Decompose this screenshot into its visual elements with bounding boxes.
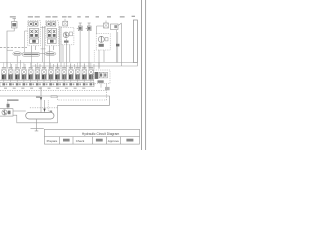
manifold valve unit MV12 xyxy=(75,63,80,83)
tank inlet pipe 2 xyxy=(44,100,46,113)
V1 solenoid a xyxy=(29,22,33,26)
return line solid xyxy=(0,96,110,105)
pilot pump P2 box xyxy=(0,109,13,116)
check valve CV1 xyxy=(77,23,82,31)
accumulator ACC body xyxy=(111,23,122,29)
wire V2 ports down xyxy=(48,46,50,52)
wire CV1 down xyxy=(79,31,81,68)
wire bus between blocks xyxy=(41,48,46,50)
tank vent label xyxy=(36,96,40,98)
node tag T3 (oval) xyxy=(45,52,56,56)
svg-text:Check: Check xyxy=(76,139,85,143)
title block table xyxy=(44,129,139,144)
manifold valve unit MV8 xyxy=(49,63,54,83)
wire riser pair xyxy=(117,30,118,63)
V1 solenoid b xyxy=(34,22,38,26)
node tag T1 (oval) xyxy=(13,52,22,56)
wire pump to tank upper xyxy=(13,110,26,112)
drain dashed from gear pump xyxy=(93,50,95,63)
pump P1 solenoid box xyxy=(63,21,68,26)
gear pump unit GP enclosure (dashed) xyxy=(96,34,110,51)
V1 spool body xyxy=(29,29,39,38)
cylinder CYL body xyxy=(133,20,137,63)
manifold valve unit MV7 xyxy=(42,63,47,83)
manifold valve unit MV4 xyxy=(22,63,27,83)
wire CV2 down xyxy=(88,31,90,68)
manifold riser stubs xyxy=(7,60,99,69)
label: pilot filter xyxy=(7,99,19,101)
label: cylinder xyxy=(132,16,135,17)
wire accumulator down xyxy=(120,29,122,66)
manifold valve unit MV14 xyxy=(89,63,94,83)
pilot return dotted line xyxy=(0,90,107,100)
wire pump to tank lower xyxy=(13,105,58,123)
wire gear pump down xyxy=(99,50,104,68)
pilot valve PV1 port marks xyxy=(12,23,16,27)
manifold body rail top line xyxy=(0,79,94,81)
cell: name1 xyxy=(63,139,70,142)
wire RV drain down xyxy=(101,84,107,91)
label: right travel block xyxy=(28,16,33,17)
svg-text:Approve: Approve xyxy=(108,139,120,143)
tank inlet dotted pilot drain xyxy=(47,100,49,112)
svg-text:Hydraulic Circuit Diagram: Hydraulic Circuit Diagram xyxy=(82,132,120,136)
manifold valve unit MV3 xyxy=(15,63,20,83)
pump P1 side valve box xyxy=(69,32,72,36)
label: check valve CV2 xyxy=(85,16,89,17)
pump outlet valve mark xyxy=(8,111,11,115)
cell: name2 xyxy=(96,139,103,142)
tank inlet pipe with arrow xyxy=(40,87,42,113)
pump P1 circle xyxy=(63,32,69,38)
label: check valve CV1 xyxy=(77,16,80,17)
node tag T2 (flat box with text) xyxy=(22,52,40,56)
manifold valve unit MV6 xyxy=(35,63,40,83)
wire SB1 left xyxy=(97,26,104,34)
V2 solenoid a xyxy=(47,22,51,26)
relief valve unit RV (right end of manifold) xyxy=(94,70,111,84)
wire block A left port xyxy=(25,31,28,52)
V2 relief section xyxy=(48,39,57,44)
manifold valve unit MV5 xyxy=(28,63,33,83)
wire from PV1 down xyxy=(7,28,14,68)
sheet border outer line xyxy=(145,0,147,150)
svg-text:Prepare: Prepare xyxy=(47,139,58,143)
node label B xyxy=(116,44,119,47)
corner shade xyxy=(105,87,110,90)
manifold valve unit MV2 xyxy=(8,63,13,83)
label: main pump xyxy=(62,16,67,17)
label: left travel block xyxy=(46,16,51,17)
manifold valve unit MV11 xyxy=(69,63,74,83)
manifold body lower rail xyxy=(0,82,94,86)
sheet border inner line xyxy=(141,0,143,150)
control valve block V1 enclosure (dashed) xyxy=(28,21,41,46)
solenoid box SB1 xyxy=(104,21,109,29)
pilot valve PV1 body xyxy=(12,19,18,29)
drain dotted into tank xyxy=(57,96,59,100)
gear pump circle xyxy=(98,36,104,42)
gear pump valve marks xyxy=(99,44,104,47)
manifold valve unit MV10 xyxy=(62,63,67,83)
pump P1 drain marks xyxy=(64,41,69,43)
pilot pump P2 circle xyxy=(2,110,7,115)
V2 solenoid b xyxy=(52,22,56,26)
wire V1 ports down xyxy=(31,46,33,52)
wire pump ports down xyxy=(63,39,70,62)
V2 spool body xyxy=(47,29,57,38)
pilot dashed line left xyxy=(0,47,27,49)
strainer mark xyxy=(7,104,10,108)
hydraulic tank (reservoir) xyxy=(26,112,54,119)
tank side tag xyxy=(50,111,53,113)
cell: name3 xyxy=(126,139,133,142)
label: pilot pump unit xyxy=(96,16,99,17)
tank drain line xyxy=(31,119,44,131)
control valve block V2 enclosure (dashed) xyxy=(46,21,59,46)
label: pilot valve PV1 xyxy=(10,16,16,17)
manifold valve unit MV13 xyxy=(82,63,87,83)
label: accumulator xyxy=(120,16,125,17)
wire bus to cylinder xyxy=(0,62,133,64)
check valve CV2 xyxy=(86,23,91,31)
V1 relief section xyxy=(30,39,39,44)
manifold valve unit MV1 xyxy=(2,63,7,83)
manifold drain ticks xyxy=(2,83,94,89)
pump P1 enclosure (dashed) xyxy=(61,27,74,45)
wire tag links xyxy=(7,50,49,63)
manifold valve unit MV9 xyxy=(55,63,60,83)
